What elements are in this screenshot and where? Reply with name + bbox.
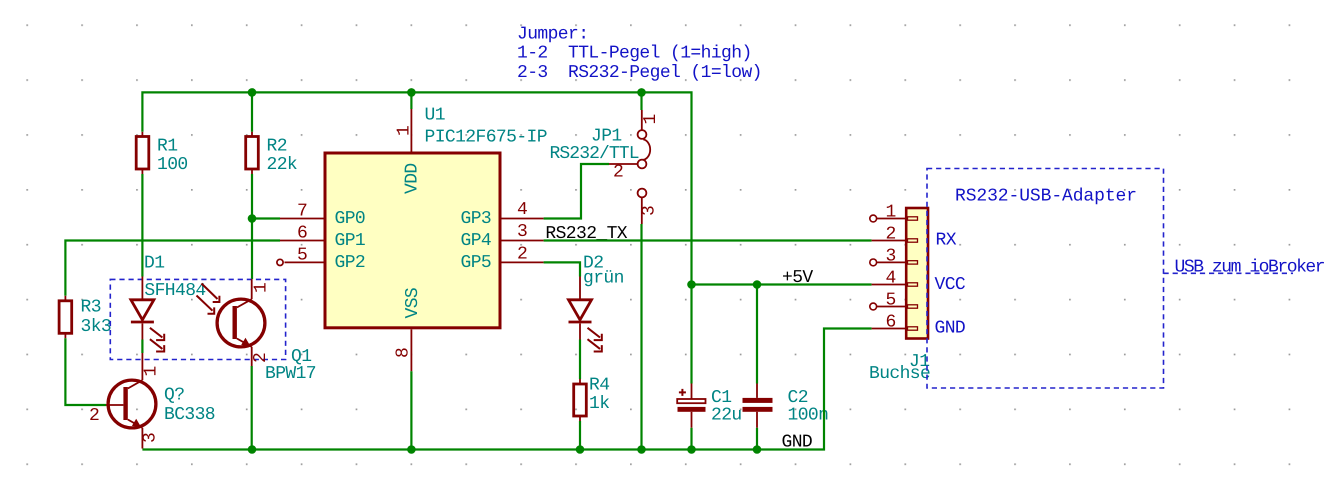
wire: C1 column upper <box>690 285 692 384</box>
junction +5V at C2 column <box>753 280 762 289</box>
wire: R4 to GND rail <box>579 421 581 450</box>
junction GND at Q1 emitter <box>248 445 257 454</box>
svg-text:1: 1 <box>142 366 162 376</box>
svg-text:R4: R4 <box>589 376 609 396</box>
svg-text:8: 8 <box>394 348 414 358</box>
hierarchical connection dashed line <box>1164 272 1294 274</box>
svg-text:3: 3 <box>517 222 527 242</box>
junction at R2 top <box>248 88 257 97</box>
JP1 pin 1 <box>641 110 643 130</box>
svg-text:USB zum ioBroker: USB zum ioBroker <box>1175 258 1325 278</box>
wire: R1 bottom to D1 anode <box>141 174 143 277</box>
J1 pin 5 <box>870 291 918 311</box>
JP1 pin 3 <box>638 189 647 198</box>
wire: JP1 pin3 down to GND rail <box>640 224 642 450</box>
connector J1 body <box>906 208 928 339</box>
svg-text:2: 2 <box>89 406 99 426</box>
svg-text:PIC12F675-IP: PIC12F675-IP <box>425 128 547 148</box>
phototransistor Q1 BPW17 <box>197 279 317 384</box>
wire: GP0 to U1 <box>252 217 280 219</box>
svg-text:1: 1 <box>252 283 272 293</box>
wire: GP0 node down to Q1 collector <box>251 219 253 280</box>
wire: pin8 to GND rail <box>410 371 412 449</box>
J1 pin 4 VCC <box>872 269 966 296</box>
svg-text:100n: 100n <box>788 406 829 426</box>
D2 emission arrows <box>588 328 602 352</box>
U1 pin 6 GP1 <box>280 224 365 252</box>
svg-text:2: 2 <box>886 225 896 245</box>
D1 emission arrows <box>150 328 164 352</box>
LED D2 <box>569 254 624 352</box>
svg-text:D1: D1 <box>144 254 164 274</box>
junction at U1 pin1 <box>407 88 416 97</box>
wire: GP3 to JP1 pin2 <box>544 164 609 219</box>
svg-text:BPW17: BPW17 <box>265 364 316 384</box>
capacitor C2 <box>743 384 829 428</box>
svg-text:6: 6 <box>297 224 307 244</box>
svg-text:Jumper:: Jumper: <box>517 25 588 45</box>
svg-text:1k: 1k <box>589 394 609 414</box>
resistor R3 <box>59 296 111 339</box>
note: jumper legend text <box>517 25 762 83</box>
svg-text:R3: R3 <box>81 298 101 318</box>
svg-text:3: 3 <box>886 247 896 267</box>
U1 pin 1 VDD <box>395 109 423 194</box>
RS232-USB-Adapter dashed box <box>927 169 1164 389</box>
wire: C1 to GND rail <box>690 428 692 450</box>
U1 pin 2 GP5 <box>461 245 544 274</box>
wire: Q1 emitter to GND rail <box>251 366 253 450</box>
svg-text:22u: 22u <box>711 406 742 426</box>
wire: C2 to GND rail <box>756 428 758 450</box>
resistor R1 <box>136 132 187 175</box>
J1 pin 2 RX <box>872 225 957 251</box>
svg-text:grün: grün <box>583 269 624 289</box>
wire: GP5 to D2 anode <box>544 262 580 276</box>
svg-text:3: 3 <box>141 433 161 443</box>
capacitor C1 (polarized) <box>677 384 741 428</box>
svg-text:GP2: GP2 <box>335 253 366 273</box>
svg-text:VDD: VDD <box>403 163 423 194</box>
JP1 bail arc <box>643 139 650 159</box>
svg-text:R2: R2 <box>267 137 287 157</box>
optocoupler dashed box <box>110 279 285 359</box>
svg-text:RX: RX <box>936 231 957 251</box>
svg-text:2: 2 <box>613 163 623 183</box>
jumper JP1 <box>550 110 662 224</box>
svg-text:2: 2 <box>517 245 527 265</box>
junction GND at JP1 pin3 <box>637 445 646 454</box>
svg-text:5: 5 <box>886 291 896 311</box>
wire: C2 column upper <box>756 285 758 384</box>
junction +5V at C1 column <box>687 280 696 289</box>
svg-text:GP1: GP1 <box>335 231 366 251</box>
U1 pin 5 GP2 unconnected <box>277 246 365 274</box>
LED D1 SFH484 <box>131 254 206 352</box>
svg-text:3k3: 3k3 <box>81 317 112 337</box>
junction at JP1 pin1 <box>637 88 646 97</box>
junction GND at C1 <box>687 445 696 454</box>
svg-text:6: 6 <box>886 313 896 333</box>
svg-text:1: 1 <box>641 114 661 124</box>
svg-text:RS232-USB-Adapter: RS232-USB-Adapter <box>955 187 1137 207</box>
resistor R2 <box>246 132 297 175</box>
svg-text:Q?: Q? <box>164 386 184 406</box>
wire: rail to JP1 pin1 <box>640 92 642 110</box>
wire: top supply rail <box>142 92 691 284</box>
svg-text:1: 1 <box>395 126 415 136</box>
wire: RS232_TX net GP4 to J1 pin2 <box>544 239 872 241</box>
transistor Q? BC338 <box>89 353 215 449</box>
junction GND at R4 <box>576 445 585 454</box>
wire: R2 bottom to GP0 junction <box>251 174 253 219</box>
svg-text:VSS: VSS <box>403 288 423 319</box>
svg-text:GP0: GP0 <box>335 209 366 229</box>
junction GND at C2 <box>753 445 762 454</box>
svg-text:SFH484: SFH484 <box>144 281 205 301</box>
svg-text:GP3: GP3 <box>461 209 492 229</box>
wire: GND bottom rail <box>142 329 871 450</box>
junction GND at U1 pin8 <box>407 445 416 454</box>
svg-text:U1: U1 <box>425 106 445 126</box>
svg-text:5: 5 <box>297 246 307 266</box>
wire: R2 top stub <box>251 92 253 131</box>
svg-text:2: 2 <box>251 353 271 363</box>
wire: D2 cathode to R4 <box>579 340 581 380</box>
resistor R4 <box>574 376 610 422</box>
svg-text:VCC: VCC <box>935 275 966 295</box>
J1 pin 6 GND <box>872 313 966 339</box>
U1 pin 8 VSS <box>394 288 424 371</box>
svg-text:RS232/TTL: RS232/TTL <box>550 144 639 164</box>
svg-text:4: 4 <box>517 200 527 220</box>
J1 pin 1 <box>870 203 918 223</box>
U1 pin 7 GP0 <box>280 202 365 230</box>
svg-text:4: 4 <box>886 269 896 289</box>
wire: R3 bottom to Q? base <box>65 338 106 405</box>
wire: D1 cathode to Q? collector <box>141 340 143 354</box>
svg-text:BC338: BC338 <box>164 405 215 425</box>
svg-text:GP4: GP4 <box>461 231 492 251</box>
U1 pin 3 GP4 <box>461 222 544 251</box>
JP1 pin 2 <box>638 160 647 169</box>
svg-text:Buchse: Buchse <box>869 364 930 384</box>
svg-text:R1: R1 <box>157 137 177 157</box>
svg-text:7: 7 <box>297 202 307 222</box>
svg-text:3: 3 <box>640 206 660 216</box>
svg-text:2-3 RS232-Pegel (1=low): 2-3 RS232-Pegel (1=low) <box>517 63 762 83</box>
wire: pin1 stub from rail <box>410 92 412 109</box>
svg-text:1-2 TTL-Pegel (1=high): 1-2 TTL-Pegel (1=high) <box>517 44 752 64</box>
svg-text:GND: GND <box>935 319 966 339</box>
junction GP0 node <box>248 214 257 223</box>
Q1 light arrows <box>197 284 220 314</box>
svg-text:22k: 22k <box>267 155 298 175</box>
svg-text:GP5: GP5 <box>461 253 492 273</box>
wire: +5V rail to J1 pin4 <box>692 283 872 285</box>
svg-text:100: 100 <box>157 155 188 175</box>
wire: GP1 net to R3 <box>65 241 280 296</box>
IC U1 PIC12F675-IP body <box>325 153 500 328</box>
svg-text:1: 1 <box>886 203 896 223</box>
U1 pin 4 GP3 <box>461 200 544 229</box>
J1 pin 3 <box>870 247 918 267</box>
